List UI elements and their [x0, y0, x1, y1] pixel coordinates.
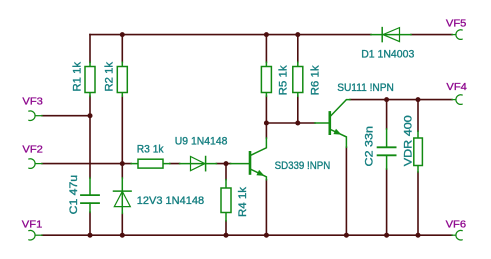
svg-text:VF6: VF6: [446, 219, 467, 230]
junction bottom rail zener: [120, 233, 125, 238]
junction base rail R6: [295, 121, 300, 126]
svg-text:C1 47u: C1 47u: [68, 175, 80, 215]
svg-text:VF1: VF1: [22, 219, 43, 230]
wire SU111 emitter to bottom rail: [345, 147, 347, 235]
terminal VF6: [452, 230, 462, 240]
wire top rail net VF5: [90, 34, 452, 36]
junction bottom rail C1: [88, 233, 93, 238]
capacitor C1: [81, 178, 99, 212]
junction VF3 R1: [88, 113, 93, 118]
junction VF4 C2: [384, 97, 389, 102]
junction bottom rail C2: [384, 233, 389, 238]
resistor R6: [293, 62, 303, 96]
junction top rail R6: [295, 32, 300, 37]
resistor R5: [261, 62, 271, 96]
resistor R2: [117, 62, 127, 96]
wire column VDR: [417, 100, 419, 236]
svg-text:SU111 !NPN: SU111 !NPN: [337, 82, 394, 94]
svg-text:R1 1k: R1 1k: [72, 62, 84, 92]
svg-text:U9 1N4148: U9 1N4148: [175, 136, 228, 148]
svg-text:R3 1k: R3 1k: [137, 144, 164, 156]
svg-text:VF5: VF5: [446, 19, 467, 30]
junction bottom rail VDR: [416, 233, 421, 238]
junction VF2 zener: [120, 161, 125, 166]
svg-text:12V3 1N4148: 12V3 1N4148: [137, 195, 204, 207]
junction base rail R5: [264, 121, 269, 126]
junction top rail R2: [120, 32, 125, 37]
junction top rail R5: [264, 32, 269, 37]
terminal VF3: [29, 111, 42, 121]
terminal VF4: [452, 95, 462, 105]
svg-text:R5 1k: R5 1k: [278, 65, 290, 96]
wire bottom rail net VF1/VF6: [42, 234, 452, 236]
wire base rail R5 R6 to SU111 base: [266, 122, 315, 124]
capacitor C2: [378, 129, 396, 169]
wire column R2 (net VF5 to R2, R2 to VF2, zener to VF1): [121, 35, 123, 236]
svg-text:D1 1N4003: D1 1N4003: [361, 49, 414, 61]
svg-text:R2 1k: R2 1k: [103, 62, 115, 92]
terminal VF5: [452, 30, 462, 40]
wire VF2 horizontal segments: [42, 163, 231, 165]
diode D1 1N4003: [371, 28, 411, 42]
svg-text:VF3: VF3: [22, 97, 43, 108]
resistor R3: [131, 159, 170, 168]
svg-text:R4 1k: R4 1k: [237, 186, 249, 217]
svg-text:VF2: VF2: [22, 145, 43, 156]
transistor SU111: [315, 100, 350, 148]
junction bottom rail R4: [224, 233, 229, 238]
wire column R4: [225, 164, 227, 236]
svg-text:C2 33n: C2 33n: [363, 126, 375, 167]
wire column R1 (net VF5 to R1, R1 to VF3, VF3 to C1, C1 to VF1): [89, 35, 91, 236]
junction bottom rail SU111 emitter: [344, 233, 349, 238]
svg-text:VF4: VF4: [446, 82, 467, 93]
zener diode 12V3 1N4148: [114, 178, 132, 213]
transistor SD339: [231, 138, 267, 180]
resistor R4: [221, 180, 231, 221]
svg-text:SD339 !NPN: SD339 !NPN: [275, 160, 331, 172]
junction bottom rail SD339 emitter: [264, 233, 269, 238]
terminal VF2: [29, 159, 42, 169]
terminal VF1: [29, 230, 42, 240]
junction VF2 R4: [224, 161, 229, 166]
svg-text:R6 1k: R6 1k: [309, 65, 321, 96]
wire column C2: [386, 100, 388, 236]
wire VF3 horizontal: [42, 115, 90, 117]
svg-text:VDR 400: VDR 400: [402, 115, 414, 166]
diode U9 1N4148: [180, 157, 217, 171]
resistor R1: [85, 62, 95, 96]
wire net VF4 horizontal: [350, 99, 452, 101]
wire column R5 / SD339 collector-emitter: [265, 35, 267, 236]
wire column R6: [297, 35, 299, 123]
junction VF4 VDR: [416, 97, 421, 102]
varistor VDR: [414, 131, 423, 172]
